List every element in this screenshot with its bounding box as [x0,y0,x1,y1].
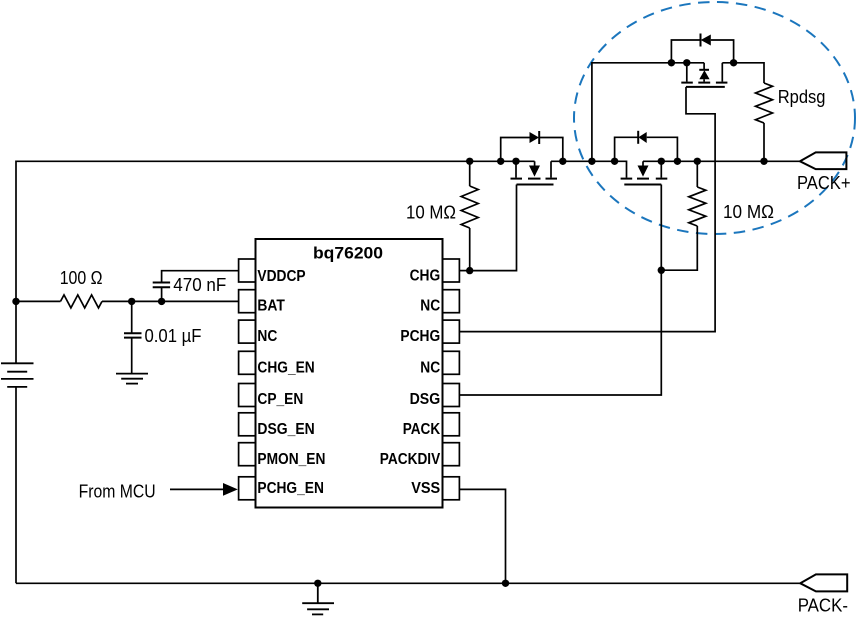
junction node Q3 rail / Q3 source [683,59,690,66]
U1 pin CHG box (right pin 16) [443,259,460,282]
U1 pin PCHG_EN box (left pin 8) [239,477,256,500]
U1 pin VSS box (right pin 9) [443,477,460,500]
svg-text:0.01 µF: 0.01 µF [145,326,202,346]
junction node Q2 gate / R3 bottom [658,267,665,274]
U1 pin NC box (right pin 13) [443,351,460,374]
arrow From MCU to PCHG_EN [170,483,238,496]
svg-text:10 MΩ: 10 MΩ [406,203,456,223]
U1 pin DSG box (right pin 12) [443,384,460,407]
U1 pin DSG_EN box (left pin 6) [239,413,256,436]
junction node rail / D2 cathode [611,158,618,165]
svg-text:10 MΩ: 10 MΩ [723,202,774,222]
svg-text:CHG: CHG [410,267,441,284]
diode D3 (Q3 parallel diode) [671,34,733,63]
resistor R2 10 MOhm (CHG gate) [461,186,478,228]
wire Q2 gate to DSG pin [459,185,661,396]
capacitor C1 470 nF [153,271,239,302]
U1 pin PCHG box (right pin 14) [443,320,460,343]
junction node rail / Q1 source [512,158,519,165]
svg-text:VSS: VSS [411,480,440,497]
junction node rail / Q3 branch riser [588,158,595,165]
wire Q3 gate to PCHG pin [459,87,715,332]
wire BAT+ rail segment A (top rail left) [16,161,535,363]
junction node BAT pin / C1 branch [158,298,165,305]
svg-text:CP_EN: CP_EN [257,391,303,408]
svg-text:From MCU: From MCU [79,482,156,502]
junction node rail / R2 top [466,158,473,165]
junction node rail / Q2 drain [658,158,665,165]
wire Rpdsg to rail [763,123,765,161]
svg-text:NC: NC [257,328,277,345]
junction node CHG pin / R2 / Q1 gate [466,267,473,274]
junction node Q3 rail / D3 anode [730,59,737,66]
U1 pin CP_EN box (left pin 5) [239,384,256,407]
IC U1 bq76200 body [256,239,443,508]
U1 pin CHG_EN box (left pin 4) [239,351,256,374]
wire riser to precharge FET rail [592,63,704,162]
wire Q3 drain rail to Rpdsg [722,63,764,83]
svg-text:BAT: BAT [257,297,285,314]
junction node rail / D1 cathode [559,158,566,165]
U1 pin PACK box (right pin 11) [443,413,460,436]
transistor Q1 CHG NMOS [511,161,558,184]
connector J1 PACK+ [800,152,846,169]
svg-text:CHG_EN: CHG_EN [257,359,314,376]
U1 pin VDDCP box (left pin 1) [239,259,256,282]
wire CHG node to Q1 gate [470,185,517,271]
svg-text:PCHG: PCHG [400,328,440,345]
U1 pin PACKDIV box (right pin 10) [443,443,460,466]
U1 pin NC box (right pin 15) [443,290,460,313]
svg-text:DSG_EN: DSG_EN [257,421,314,438]
wire BAT node to R1 [16,300,61,302]
resistor R3 10 MOhm (DSG gate) [689,187,706,226]
transistor Q3 precharge NMOS [681,63,727,87]
wire CHG pin to node [459,270,469,272]
svg-text:PACK: PACK [403,421,441,438]
svg-text:PACK-: PACK- [798,595,848,615]
connector J2 PACK- [800,574,847,591]
svg-text:PCHG_EN: PCHG_EN [257,480,324,497]
resistor R4 Rpdsg [756,83,773,123]
battery BT1 [1,363,34,387]
diode D2 (Q2 parallel diode) [615,131,678,162]
U1 pin NC box (left pin 3) [239,320,256,343]
highlight ellipse (dashed blue) [574,2,855,234]
junction node rail / D1 anode [497,158,504,165]
wire rail segment C to PACK+ [643,160,800,162]
svg-text:DSG: DSG [410,391,441,408]
junction node Q3 rail / D3 cathode [668,59,675,66]
svg-text:100 Ω: 100 Ω [60,268,103,288]
svg-text:NC: NC [420,297,440,314]
svg-text:PACKDIV: PACKDIV [380,451,441,468]
wire rail to R3 [696,161,698,187]
U1 pin PMON_EN box (left pin 7) [239,443,256,466]
diode D1 (Q1 parallel diode) [501,131,563,161]
junction node PACK- rail / VSS [502,580,509,587]
transistor Q2 DSG NMOS [621,161,668,184]
wire rail segment B [551,161,627,177]
U1 pin BAT box (left pin 2) [239,290,256,313]
junction node PACK+ rail / Rpdsg bottom [760,158,767,165]
svg-text:470 nF: 470 nF [173,275,226,295]
junction node rail / D2 anode [674,158,681,165]
capacitor C2 0.01 uF [124,301,142,373]
wire R2 to CHG node [469,228,471,271]
resistor R1 100 Ohm [61,295,103,308]
junction node BAT+ / R1 branch [12,298,19,305]
svg-text:NC: NC [420,359,440,376]
wire VSS to bottom rail [459,489,505,583]
ground (under C2) [116,374,148,384]
wire R3 to DSG gate line [661,226,697,270]
svg-text:PACK+: PACK+ [797,173,851,193]
ground (bottom rail) [302,583,334,614]
wire battery negative to bottom rail [15,387,17,583]
wire R1 to BAT pin [102,300,239,302]
junction node BAT pin / C2 branch [128,298,135,305]
svg-text:VDDCP: VDDCP [257,268,305,285]
svg-text:Rpdsg: Rpdsg [778,87,826,107]
svg-text:PMON_EN: PMON_EN [257,451,325,468]
wire bottom PACK- rail [16,582,800,584]
junction node PACK- rail / ground [314,580,321,587]
wire rail to R2 [469,161,471,186]
svg-text:bq76200: bq76200 [313,243,383,262]
junction node rail / R3 top [694,158,701,165]
